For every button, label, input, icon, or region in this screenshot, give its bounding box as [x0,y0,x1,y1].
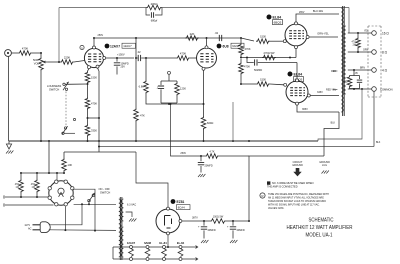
resistor R6 22K plate load [185,36,199,41]
power transformer T1 secondary winding [121,199,123,221]
wire R8 down and right y104 [146,94,204,104]
capacitor C11 40MFD filter [203,221,205,226]
wire grid stopper upper feed [241,38,254,41]
capacitor C12 40MFD filter [232,221,234,226]
terminal 8 ohm [372,50,377,55]
power transformer T1 core [119,197,121,260]
svg-text:47Ω: 47Ω [15,184,20,186]
wire x146 from plate line [145,57,147,59]
svg-text:RED-YEL: RED-YEL [326,90,337,92]
resistor R22 47 [36,173,38,179]
svg-text:4 Ω: 4 Ω [382,68,388,72]
resistor R12 470K upper grid leak [240,38,242,43]
heater bus arrows [194,246,198,249]
svg-text:1500: 1500 [260,35,266,39]
wire jack sleeve to bus [8,56,10,141]
heater V1 12AX7 [130,246,133,249]
svg-text:16 Ω: 16 Ω [382,31,389,35]
AC plug [40,222,50,233]
wire resistors to y197 [20,193,22,197]
wire B+ riser x249 [249,156,324,221]
octal socket with pilot lamp [49,181,73,205]
wire R4c to bus [87,137,89,141]
svg-text:12AU7: 12AU7 [123,44,132,48]
wire input to R1 [11,52,18,54]
svg-text:6.3 VAC: 6.3 VAC [127,204,136,207]
wire 6.3V lead [126,200,143,202]
capacitor C7 50MFD cathode bypass [247,58,254,63]
wire feedback line from 16-ohm tap to input stage [59,7,146,9]
svg-text:RED: RED [331,71,336,73]
resistor R21 47 [20,173,22,179]
svg-text:R: R [261,194,263,198]
wire y156 to riser [219,155,249,157]
zobel network stub [353,70,355,76]
heater bus lines [113,246,194,248]
svg-text:6AN8: 6AN8 [232,44,239,48]
terminal 4 ohm [372,68,377,73]
wire to V3 grid [270,40,284,42]
wire screen feed x233 [232,102,234,141]
wire plate supply line y38 [94,37,241,39]
pin V3 plate top [295,22,298,25]
svg-text:GRN-YEL: GRN-YEL [317,32,329,36]
capacitor C5 .1MFD in RC box [161,80,177,82]
svg-text:.02: .02 [215,31,219,35]
svg-text:YEL: YEL [364,30,369,32]
svg-text:GRN: GRN [363,49,368,51]
wire x136 drop to y183 [136,152,168,196]
svg-text:20KΩ: 20KΩ [151,2,158,6]
svg-text:6U8: 6U8 [223,45,229,49]
wire x136 vertical [135,38,137,58]
svg-text:HEATHKIT 12 WATT AMPLIFIER: HEATHKIT 12 WATT AMPLIFIER [287,225,353,231]
output transformer T2 core [342,6,344,116]
pentode V3 EL84 upper [285,24,307,46]
svg-text:TUBE VOLTAGES ARE POSITIVE DC,: TUBE VOLTAGES ARE POSITIVE DC, MEASURED … [268,193,329,196]
svg-text:VALUES ±20%.: VALUES ±20%. [268,207,285,210]
wire plug bottom to primary [49,229,116,232]
svg-text:WITH NO SIGNAL INPUT AND LINE: WITH NO SIGNAL INPUT AND LINE AT 117 VAC… [268,203,320,206]
zobel bottom bar [350,87,360,90]
wire R11 to bus [203,130,205,141]
triode V2 6AN8 phase splitter [197,48,217,68]
resistor R8 6.8K [144,80,149,94]
wire socket pin B line to primary [74,203,116,205]
svg-text:ON - OFF: ON - OFF [99,187,111,191]
junction bus dots [40,140,42,142]
svg-text:365V: 365V [302,108,308,111]
pilot bar y173 [21,172,64,174]
svg-text:6.8K: 6.8K [139,85,145,89]
resistor R18 47 zobel [347,76,352,88]
pin V3 screen [306,36,309,39]
pin EZ81 cathode bottom [167,232,170,235]
svg-text:345V: 345V [317,91,323,94]
resistor R24 4.7K [201,155,205,157]
svg-text:4.7K: 4.7K [209,151,214,154]
wire common return y146.5 [99,146,374,148]
svg-text:6BQ5: 6BQ5 [274,21,282,25]
wire wiper to grid resistor [48,61,60,63]
svg-text:12AX7: 12AX7 [110,45,120,49]
rectifier V5 EZ81 [156,209,180,233]
pin V4 bottom [296,102,299,105]
svg-text:1500: 1500 [260,78,266,82]
resistor R20 10K [63,152,65,158]
svg-text:470K: 470K [180,52,186,56]
svg-text:22K: 22K [190,32,195,36]
svg-text:265V: 265V [299,12,305,14]
wire socket pin A to x95 drop [73,189,95,230]
wire HV top to EZ81 [127,203,143,205]
pentode V4 EL84 lower [286,81,308,103]
terminal strip dashed outline [367,26,369,97]
wire 8 ohm tap [348,51,372,53]
wire supply tap from RC box bottom [171,104,202,156]
svg-text:EL-84: EL-84 [159,241,167,245]
pin V1 plate top [93,46,96,49]
wire heater pin drop x99 [98,71,100,152]
svg-text:LOUDNESS: LOUDNESS [47,84,62,88]
svg-text:TAKEN FROM SOCKET LUGS TO CHAS: TAKEN FROM SOCKET LUGS TO CHASSIS GROUND [268,200,326,203]
svg-text:47Ω: 47Ω [343,82,348,84]
wire x49 bus to pilot bar [48,141,50,173]
wire R20 to pilot bar [63,172,65,173]
volume control R2 500K [40,53,42,57]
svg-text:47Ω: 47Ω [31,184,36,186]
svg-text:270Ω 5W: 270Ω 5W [264,51,275,55]
svg-text:EL-84: EL-84 [177,241,185,245]
junction switch tap [87,83,89,85]
svg-text:20MFD: 20MFD [205,165,213,168]
wire R3 to V1 grid [74,61,84,63]
ground lug symbol [322,171,329,174]
wire cathode to upper EL84 [295,49,297,58]
capacitor C13 feedback shunt [146,8,150,16]
output transformer T2 secondary winding [344,26,346,94]
svg-text:SWITCH: SWITCH [49,87,59,91]
wire remote line y197 [5,196,48,198]
capacitor C3 10MFD cathode bypass [116,58,118,62]
resistor R11 820 cathode [201,116,206,130]
junction grid network upper [240,37,242,39]
svg-text:40MFD: 40MFD [208,229,216,232]
resistor R14 470K lower grid leak [240,59,242,62]
wire common tap [348,88,372,90]
pin 6AN8 screen stub [168,71,171,74]
svg-text:25V: 25V [121,66,126,69]
note R circle [260,193,265,198]
svg-text:SWITCH: SWITCH [100,191,110,195]
svg-text:500K: 500K [33,58,39,62]
wire 4 ohm tap [348,69,372,71]
wire to V4 grid [270,83,284,86]
svg-text:470K: 470K [245,47,251,51]
junction bias line [240,56,242,58]
wire 16 ohm tap [348,32,372,34]
pin V1 plate right [103,57,106,60]
input jack J1 [5,50,12,57]
triode V1 12AX7 [84,48,103,67]
resistor R4c 3300 [87,118,89,124]
heater V3 EL84 [163,246,166,249]
svg-text:1500: 1500 [91,76,97,80]
svg-text:VOL: VOL [34,61,40,65]
svg-text:LUG: LUG [322,164,327,167]
resistor R7 47K decoupling [134,108,139,122]
note arrow marker [267,181,270,184]
svg-text:250V: 250V [98,34,104,37]
ground bus y141 [9,140,318,142]
wire R7 to bus [135,122,137,141]
junction B+ x136 [135,37,137,39]
wire to second filter [226,220,249,222]
pin V4 top cathode [296,79,299,82]
svg-text:BLK: BLK [376,142,381,144]
label V1 12AX7 [80,45,84,49]
svg-text:680pf: 680pf [151,19,158,23]
wire plug top prong to x82 [49,204,82,225]
fat ground arrow [293,168,301,176]
pin EZ81 output right [179,220,182,223]
capacitor C9 20MFD [200,155,202,157]
switch gang dashed link [65,92,67,127]
output transformer T2 primary winding [341,8,343,112]
wire bias line y57.5 [241,57,296,59]
wire RC box bottom [161,102,177,104]
wire B heater feed y152 [64,151,136,153]
svg-text:AC: AC [28,227,32,230]
switch SW2 on-off [88,199,91,202]
label V5 EZ81 [171,199,176,204]
svg-text:+150V: +150V [117,53,125,57]
label V3 EL84 [267,15,272,20]
switch SW1 lower pole [62,132,64,134]
resistor R4a 1500 cathode [85,71,90,84]
svg-text:470K: 470K [244,65,250,69]
svg-text:EZ81: EZ81 [177,200,185,204]
resistor R4b 470K [85,97,90,110]
svg-text:8 Ω: 8 Ω [382,50,388,54]
junction x99 branch [87,110,89,118]
label V2 6AN8 [217,44,222,49]
svg-text:EL84: EL84 [294,72,303,76]
capacitor C6 .02 to upper EL84 [219,35,221,41]
chassis ground symbol at input [8,141,10,144]
resistor R1 470K [18,51,32,56]
svg-text:6AN8: 6AN8 [144,241,151,245]
svg-text:MODEL UA-1: MODEL UA-1 [306,233,333,239]
wire switch to cathode junction [65,83,87,85]
wire splitter cathode down [203,104,205,116]
wire feedback drop to volume wiper [58,8,60,63]
svg-text:387V: 387V [192,216,198,219]
wire pilot bar to socket [56,173,58,180]
svg-text:47K: 47K [140,114,145,118]
wire B+ line y221 [182,220,210,222]
svg-text:50MFD: 50MFD [254,69,262,72]
pin EZ81 plate top [167,207,170,210]
pin V2 cathode [202,67,205,70]
wire R1 to volume pot [32,52,41,54]
svg-text:SCHEMATIC: SCHEMATIC [309,218,334,224]
label V4 EL84 [288,72,293,77]
resistor R9 1200 in RC box [176,81,178,82]
junction x136 on plate wire [135,57,137,59]
resistor R17 47 ohm damping [357,33,359,37]
resistor R15 1500 grid stopper lower [256,82,270,87]
svg-text:BLU-WH: BLU-WH [313,9,323,13]
svg-text:BLK: BLK [331,123,336,125]
svg-text:THE AMP IS CONNECTED: THE AMP IS CONNECTED [267,186,298,189]
resistor R5 1500 grid stopper upper [256,39,270,44]
svg-text:EL84: EL84 [273,15,282,19]
wire screen return from common junction [318,89,362,141]
svg-text:3300: 3300 [91,129,97,133]
capacitor C10 .05 zobel [359,76,361,80]
svg-text:40MFD: 40MFD [237,229,245,232]
pin V4 grid [284,83,287,86]
terminal 16 ohm [372,31,377,36]
resistor R10 470K splitter grid [176,56,190,61]
switch SW1 upper pole [63,83,65,85]
svg-text:250V: 250V [180,152,186,155]
svg-text:1200: 1200 [180,87,186,91]
svg-text:470K: 470K [22,47,28,51]
pin V4 plate [307,94,310,97]
pin V2 plate top [205,46,208,49]
resistor R3 220K grid [60,60,74,65]
wire common terminal drop BLK [373,91,375,146]
pin V3 cathode [295,46,298,49]
pin V1 cathode [88,66,91,69]
center tap ground [126,212,132,217]
svg-text:COMMON: COMMON [380,88,393,92]
svg-text:820Ω: 820Ω [207,121,213,125]
svg-text:10K: 10K [68,163,73,167]
svg-text:BRN: BRN [360,67,365,69]
wire pot bottom to ground bus [40,71,42,141]
resistor R16 20K feedback [146,5,162,10]
svg-text:GROUND: GROUND [292,164,303,167]
svg-text:470K: 470K [91,102,97,106]
wire lower grid line y84 [241,83,256,85]
resistor R23 100 5W filter [210,219,226,224]
heater V2 6AN8 [146,246,149,249]
wire R10 to grid [190,57,196,59]
pin V1 heater [96,65,99,68]
svg-text:.02: .02 [137,50,141,54]
terminal common [372,87,377,92]
wire remote line y205 [5,204,54,206]
svg-text:100Ω 5W: 100Ω 5W [213,216,224,219]
svg-text:220K: 220K [64,56,70,60]
power transformer T1 primary winding [119,199,121,257]
svg-text:12AX7: 12AX7 [127,241,136,245]
svg-text:6CA4: 6CA4 [178,206,185,210]
resistor R13 270 5W common cathode [262,55,276,60]
svg-text:AN 11 MEGOHM INPUT VTVM. ALL: AN 11 MEGOHM INPUT VTVM. ALL VOLTAGES AR… [268,197,324,200]
junction splitter plate [206,37,208,39]
heater V4 EL84 [179,246,182,249]
capacitor C2 .02 coupling [136,57,138,59]
wire B+ to transformer bottom [324,112,339,156]
pin V3 grid [283,40,286,43]
